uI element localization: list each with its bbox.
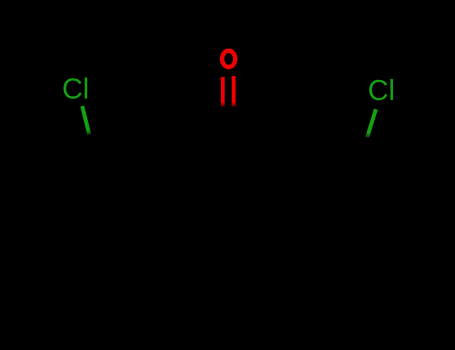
bond C-Cl (right) — [367, 109, 376, 137]
oxygen O (ketone) — [222, 51, 235, 67]
C=O double bond line 2 — [232, 76, 236, 107]
svg-text:Cl: Cl — [368, 75, 395, 107]
svg-text:Cl: Cl — [62, 74, 89, 106]
bond C-Cl (left) — [82, 106, 89, 134]
C=O double bond line 1 — [221, 77, 225, 107]
